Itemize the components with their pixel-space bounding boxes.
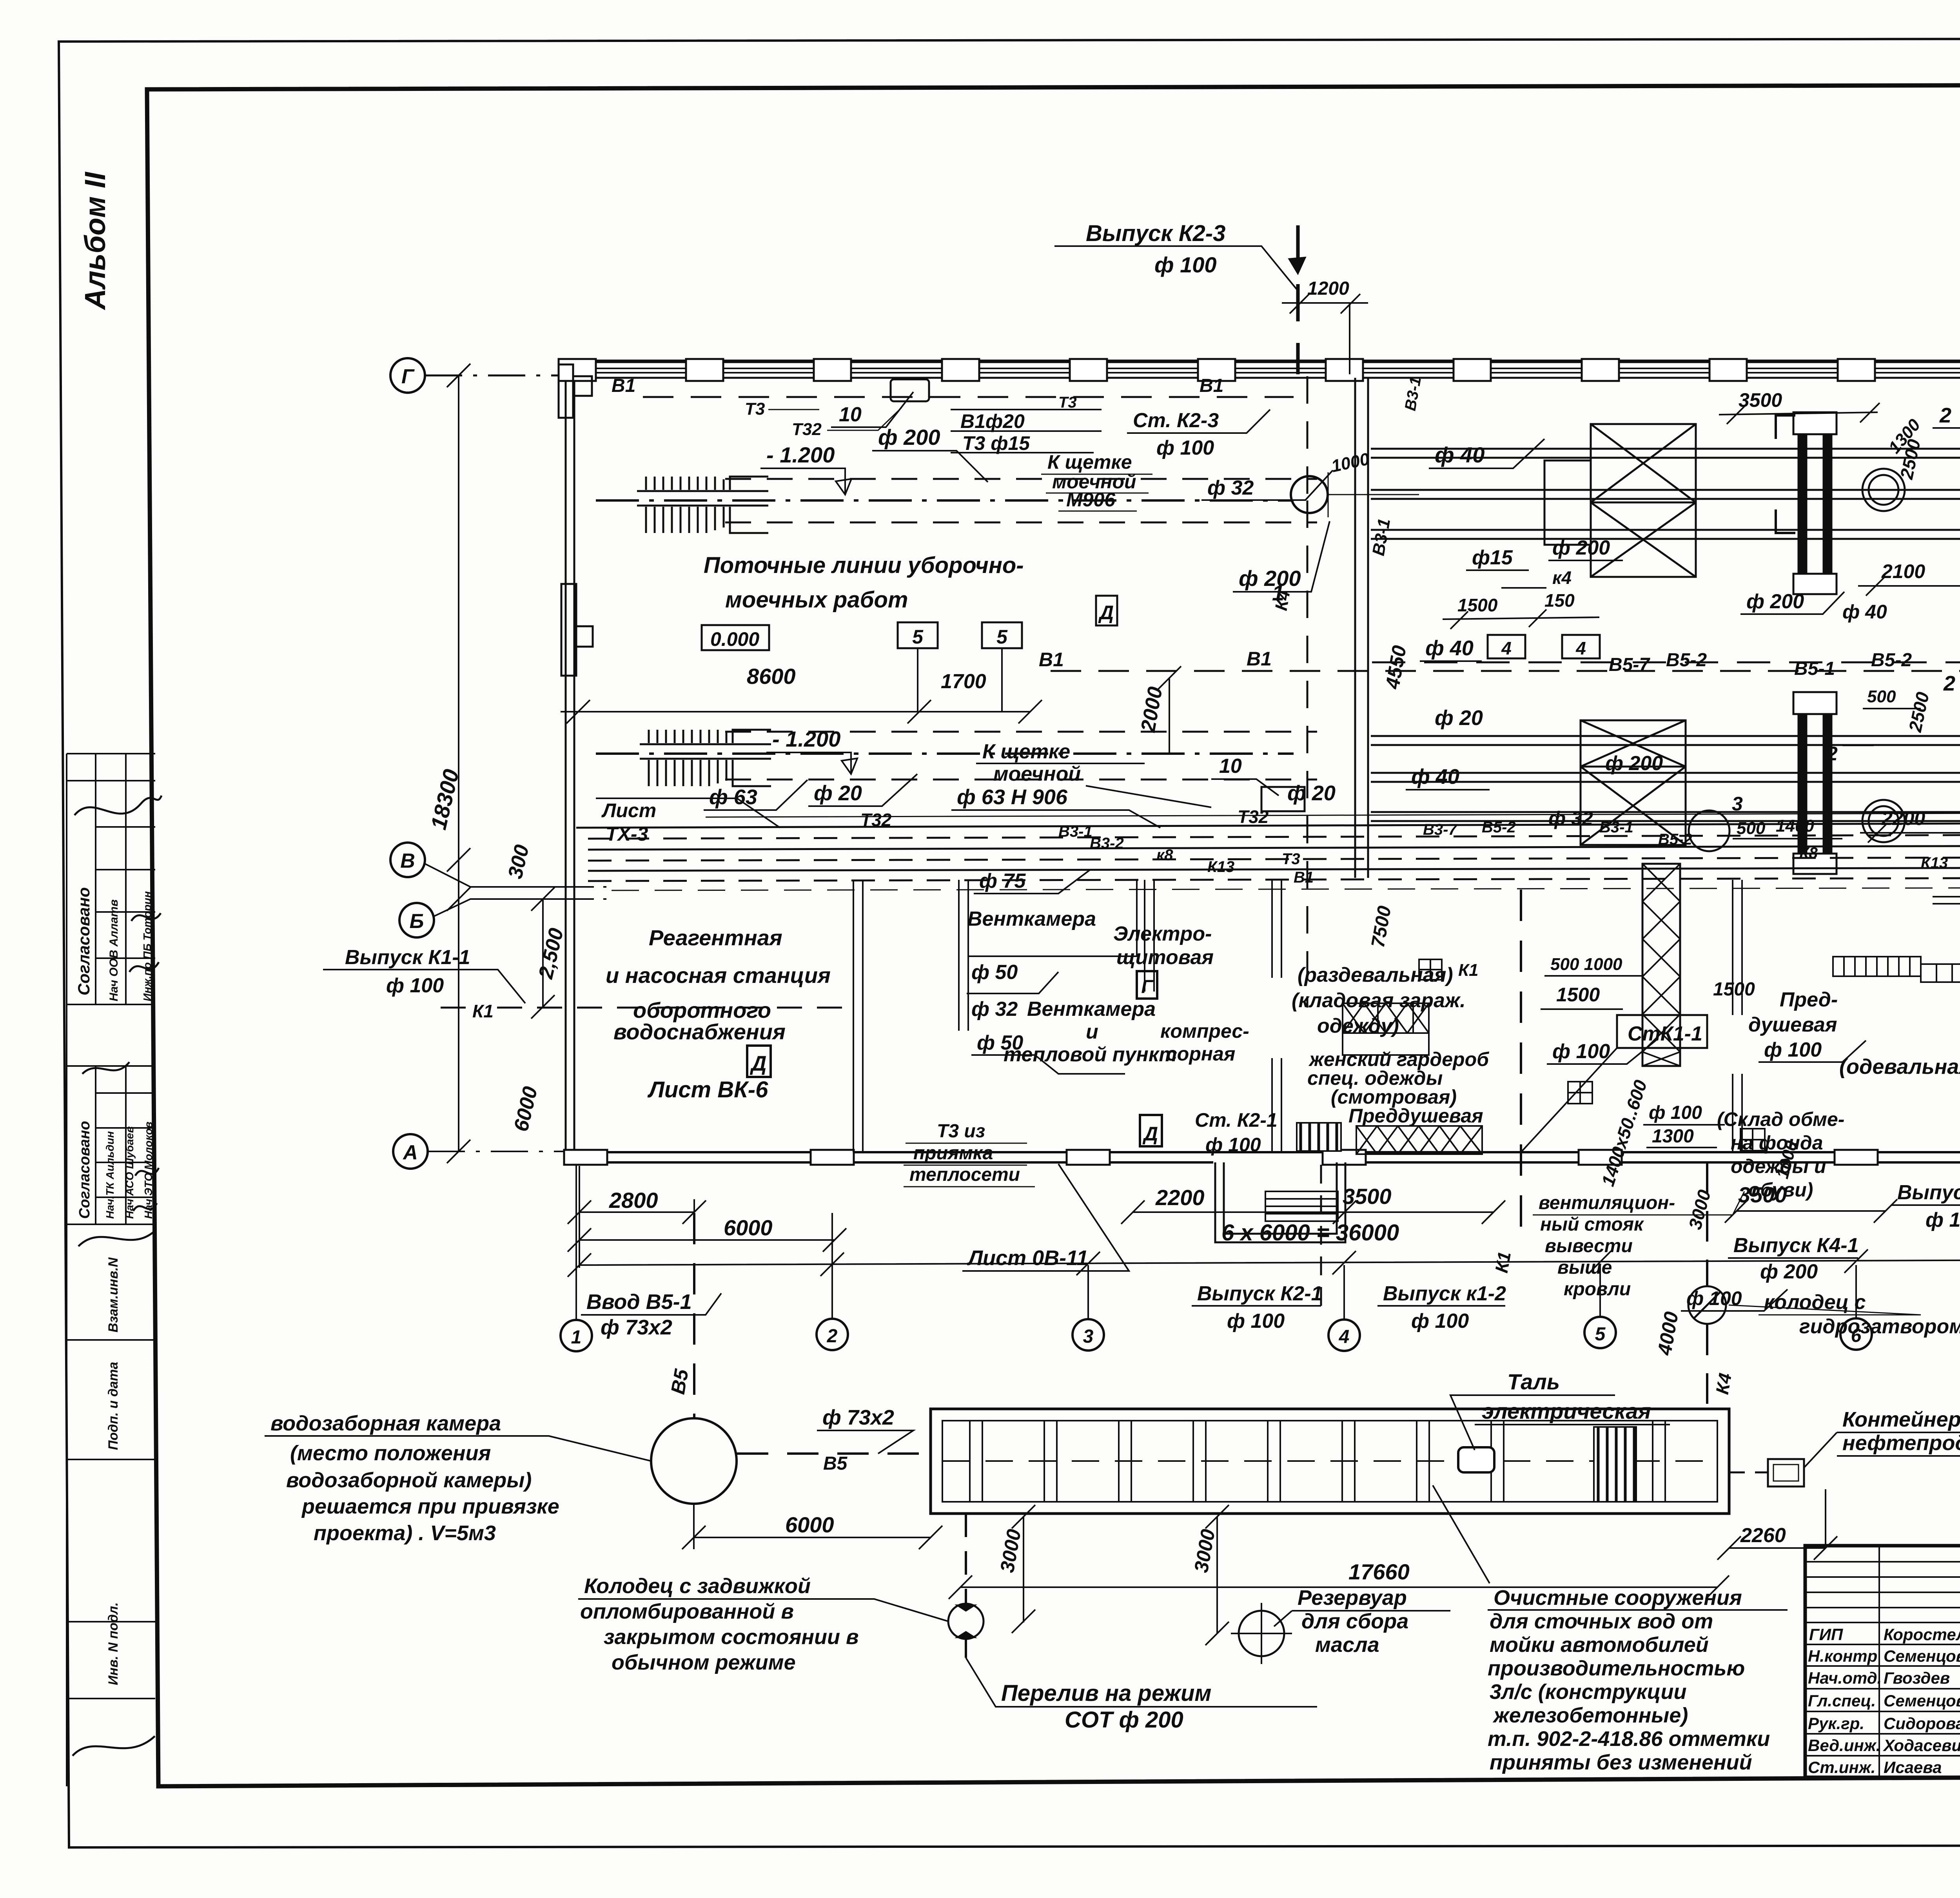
svg-text:одежду): одежду) bbox=[1317, 1015, 1399, 1037]
svg-text:ф 100: ф 100 bbox=[1926, 1209, 1960, 1231]
axis line А bbox=[428, 1151, 568, 1152]
svg-text:К8: К8 bbox=[1799, 845, 1818, 862]
svg-text:В5: В5 bbox=[667, 1367, 693, 1396]
svg-text:Б: Б bbox=[410, 910, 424, 933]
svg-text:ф15: ф15 bbox=[1472, 546, 1513, 569]
axis line В-Б dashdot bbox=[566, 887, 612, 899]
lane 2 centerline bbox=[596, 752, 1294, 755]
колодец с гидрозатвором circle bbox=[1688, 1286, 1726, 1324]
top-left corner pilaster bbox=[559, 364, 592, 418]
svg-text:Г: Г bbox=[1141, 977, 1154, 997]
svg-text:М906: М906 bbox=[1066, 489, 1116, 511]
grid circle 4 bbox=[1328, 1320, 1360, 1351]
В5 riser dashed to intake bbox=[693, 1213, 695, 1418]
svg-text:В1: В1 bbox=[1294, 869, 1314, 886]
svg-text:ф 100: ф 100 bbox=[1552, 1040, 1610, 1063]
svg-text:ТХ-3: ТХ-3 bbox=[606, 823, 648, 845]
svg-text:1500: 1500 bbox=[1457, 595, 1498, 615]
svg-text:Семенцова: Семенцова bbox=[1884, 1691, 1960, 1710]
svg-text:Т3: Т3 bbox=[1282, 850, 1300, 868]
svg-text:ф 100: ф 100 bbox=[1154, 252, 1217, 277]
svg-text:В3-1: В3-1 bbox=[1369, 517, 1394, 557]
svg-text:(Склад обме-: (Склад обме- bbox=[1717, 1108, 1844, 1130]
svg-text:т.п. 902-2-418.86 отметки: т.п. 902-2-418.86 отметки bbox=[1488, 1727, 1770, 1751]
svg-text:Семенцова: Семенцова bbox=[1884, 1647, 1960, 1665]
svg-text:щитовая: щитовая bbox=[1116, 946, 1214, 969]
svg-text:водозаборной камеры): водозаборной камеры) bbox=[286, 1468, 532, 1492]
svg-text:ф 100: ф 100 bbox=[1227, 1310, 1285, 1332]
section flags lane1 bbox=[1776, 415, 1795, 533]
svg-text:ф 200: ф 200 bbox=[1746, 590, 1804, 613]
svg-text:Инв. N подл.: Инв. N подл. bbox=[106, 1602, 121, 1685]
svg-text:4: 4 bbox=[1575, 638, 1586, 658]
svg-text:1500: 1500 bbox=[1713, 979, 1755, 1000]
svg-text:1200: 1200 bbox=[1307, 278, 1349, 299]
svg-text:Рук.гр.: Рук.гр. bbox=[1808, 1714, 1864, 1733]
svg-text:Венткамера: Венткамера bbox=[967, 908, 1096, 930]
svg-text:ф 63 Н 906: ф 63 Н 906 bbox=[957, 785, 1068, 809]
manhole circle lane2 bbox=[1689, 810, 1730, 851]
В5 dashed to structure bbox=[737, 1452, 931, 1455]
corridor pipe К13 dashed bbox=[588, 857, 1960, 861]
svg-text:ф 200: ф 200 bbox=[1552, 537, 1610, 559]
svg-text:В5: В5 bbox=[823, 1453, 848, 1474]
grid circle 6 bbox=[1840, 1318, 1872, 1350]
svg-text:2200: 2200 bbox=[1881, 807, 1925, 829]
svg-text:нефтепродуктов: нефтепродуктов bbox=[1842, 1431, 1960, 1455]
svg-text:1400: 1400 bbox=[1776, 816, 1814, 836]
svg-text:Выпуск К2-3: Выпуск К2-3 bbox=[1086, 221, 1225, 246]
svg-text:В5-2: В5-2 bbox=[1658, 831, 1692, 848]
svg-text:сорная: сорная bbox=[1166, 1043, 1235, 1065]
extension verticals left dims bbox=[579, 1166, 694, 1268]
outlet К2-3 dashed riser bbox=[1296, 225, 1300, 374]
svg-text:колодец с: колодец с bbox=[1764, 1291, 1866, 1314]
svg-text:10: 10 bbox=[1219, 755, 1242, 778]
колодец с задвижкой circle bbox=[948, 1604, 984, 1639]
walls вокруг женского гардероба bbox=[1272, 1058, 1281, 1152]
svg-text:и насосная станция: и насосная станция bbox=[606, 963, 831, 988]
svg-text:душевая: душевая bbox=[1748, 1013, 1837, 1036]
svg-text:В3-1: В3-1 bbox=[1058, 823, 1093, 840]
svg-text:моечной: моечной bbox=[993, 763, 1081, 785]
svg-text:Согласовано: Согласовано bbox=[76, 1121, 93, 1219]
svg-text:Преддушевая: Преддушевая bbox=[1348, 1105, 1483, 1127]
svg-text:Гл.спец.: Гл.спец. bbox=[1808, 1691, 1876, 1710]
svg-text:ф 20: ф 20 bbox=[814, 781, 862, 805]
svg-text:Пред-: Пред- bbox=[1780, 988, 1838, 1011]
label К1 squares bbox=[1419, 959, 1442, 980]
svg-text:ГИП: ГИП bbox=[1809, 1625, 1843, 1644]
svg-text:ф 200: ф 200 bbox=[1239, 566, 1301, 591]
svg-text:- 1.200: - 1.200 bbox=[772, 727, 840, 751]
svg-text:компрес-: компрес- bbox=[1160, 1020, 1249, 1042]
svg-text:3500: 3500 bbox=[1738, 1182, 1787, 1207]
svg-text:Ст. К2-3: Ст. К2-3 bbox=[1133, 409, 1219, 432]
square fixture К1 bbox=[1568, 1082, 1592, 1104]
svg-text:на фонда: на фонда bbox=[1731, 1132, 1823, 1154]
structure inner rect bbox=[942, 1421, 1717, 1502]
svg-text:ф 50: ф 50 bbox=[971, 961, 1018, 984]
svg-text:500: 500 bbox=[1867, 687, 1896, 706]
svg-text:5: 5 bbox=[912, 626, 924, 648]
strip signature squiggles bbox=[73, 796, 162, 1756]
К4 dashed outlet down bbox=[1706, 1162, 1708, 1409]
left signature strip grid bbox=[67, 754, 155, 1786]
axis circle В bbox=[390, 843, 425, 877]
svg-text:Д: Д bbox=[750, 1052, 767, 1075]
lane 1 pipes dashed bbox=[725, 478, 1317, 480]
svg-text:для сбора: для сбора bbox=[1301, 1610, 1408, 1633]
svg-text:Т3 из: Т3 из bbox=[937, 1121, 985, 1142]
svg-text:железобетонные): железобетонные) bbox=[1492, 1704, 1688, 1727]
svg-text:Нач ООВ Аллатв: Нач ООВ Аллатв bbox=[107, 899, 120, 1001]
wall left of раздевальная bbox=[1272, 880, 1281, 978]
svg-text:3: 3 bbox=[1083, 1326, 1094, 1347]
axis leader В bbox=[425, 864, 566, 887]
svg-text:Т32: Т32 bbox=[1238, 807, 1269, 827]
svg-text:производительностью: производительностью bbox=[1488, 1657, 1745, 1680]
svg-text:обычном режиме: обычном режиме bbox=[612, 1651, 796, 1674]
svg-text:Г: Г bbox=[401, 365, 415, 388]
pipe В1 dashed mid bbox=[1051, 670, 1960, 672]
left vertical dimension line 18300 bbox=[458, 375, 459, 1151]
svg-text:Исаева: Исаева bbox=[1884, 1758, 1942, 1777]
svg-text:проекта) . V=5м3: проекта) . V=5м3 bbox=[314, 1521, 496, 1545]
dim line 2500 bbox=[531, 887, 555, 1019]
svg-text:В5-1: В5-1 bbox=[1794, 658, 1835, 679]
svg-text:одежды и: одежды и bbox=[1731, 1155, 1826, 1177]
pipe B1 dashed upper band bbox=[643, 396, 1294, 398]
svg-text:опломбированной в: опломбированной в bbox=[580, 1600, 794, 1623]
svg-text:В5-2: В5-2 bbox=[1666, 650, 1707, 671]
title block signature grid bbox=[1805, 1546, 1960, 1777]
lattice shaft band bbox=[1642, 864, 1680, 1066]
svg-text:Очистные сооружения: Очистные сооружения bbox=[1494, 1586, 1742, 1610]
svg-text:5: 5 bbox=[996, 626, 1008, 648]
svg-text:ф 20: ф 20 bbox=[1435, 706, 1483, 730]
svg-text:Реагентная: Реагентная bbox=[649, 925, 782, 950]
svg-text:4550: 4550 bbox=[1381, 644, 1411, 691]
svg-text:0.000: 0.000 bbox=[710, 628, 759, 650]
svg-text:ф 100: ф 100 bbox=[386, 974, 444, 997]
left exterior wall bbox=[566, 381, 574, 1152]
svg-text:ф 100: ф 100 bbox=[1205, 1134, 1261, 1156]
svg-text:К щетке: К щетке bbox=[982, 740, 1070, 763]
axis leader Б bbox=[434, 899, 566, 916]
svg-text:СОТ ф 200: СОТ ф 200 bbox=[1065, 1707, 1183, 1733]
Контейнер box bbox=[1768, 1459, 1804, 1486]
svg-text:Электро-: Электро- bbox=[1113, 923, 1212, 945]
svg-text:Выпуск к1-2: Выпуск к1-2 bbox=[1383, 1282, 1506, 1305]
wash unit 1 portal bbox=[1793, 412, 1837, 594]
svg-text:Поточные линии уборочно-: Поточные линии уборочно- bbox=[704, 553, 1024, 578]
svg-text:17660: 17660 bbox=[1348, 1559, 1410, 1584]
svg-text:В1: В1 bbox=[612, 375, 635, 396]
structure center dashline bbox=[942, 1460, 1717, 1462]
svg-text:3500: 3500 bbox=[1343, 1184, 1392, 1209]
svg-text:А: А bbox=[402, 1141, 418, 1164]
svg-text:ф 200: ф 200 bbox=[1605, 752, 1663, 775]
svg-text:для сточных вод от: для сточных вод от bbox=[1490, 1610, 1713, 1633]
В5 dashed line between lanes bbox=[1372, 662, 1960, 663]
svg-text:Т3 ф15: Т3 ф15 bbox=[962, 432, 1030, 454]
svg-text:1: 1 bbox=[571, 1327, 582, 1348]
wash unit 2 X-box bbox=[1581, 720, 1686, 845]
wash unit 2 brush circles bbox=[1862, 669, 1960, 849]
svg-text:2800: 2800 bbox=[609, 1188, 658, 1213]
svg-text:ф 100: ф 100 bbox=[1156, 437, 1214, 459]
svg-text:2: 2 bbox=[1826, 743, 1838, 765]
svg-text:6000: 6000 bbox=[510, 1084, 542, 1134]
corridor pipe В3 dashed bbox=[588, 834, 1960, 839]
wall венткамера left bbox=[959, 880, 968, 1031]
leader to очистные text bbox=[1433, 1485, 1490, 1583]
svg-text:гидрозатвором: гидрозатвором bbox=[1799, 1315, 1960, 1338]
grid circle 3 bbox=[1073, 1319, 1104, 1351]
svg-text:мойки автомобилей: мойки автомобилей bbox=[1490, 1633, 1709, 1657]
axis circle А bbox=[393, 1134, 428, 1169]
tambour stair grate bbox=[1265, 1191, 1338, 1221]
radiator comb одевальная bbox=[1833, 957, 1960, 982]
svg-text:Т3: Т3 bbox=[745, 399, 765, 419]
svg-text:2100: 2100 bbox=[1881, 560, 1925, 582]
title block main frame bbox=[1805, 1546, 1960, 1777]
svg-text:К13: К13 bbox=[1921, 854, 1948, 872]
очистные сооружения structure outer bbox=[931, 1409, 1729, 1514]
svg-text:ф 200: ф 200 bbox=[878, 425, 940, 450]
svg-text:Контейнер для: Контейнер для bbox=[1842, 1408, 1960, 1431]
svg-text:Т32: Т32 bbox=[860, 810, 892, 830]
svg-text:ф 100: ф 100 bbox=[1764, 1039, 1822, 1061]
svg-text:к8: к8 bbox=[1156, 847, 1173, 864]
svg-text:3: 3 bbox=[1732, 793, 1743, 815]
lane 1 centerline bbox=[596, 499, 1294, 502]
svg-text:2: 2 bbox=[1939, 404, 1951, 427]
axis circle Б bbox=[399, 903, 434, 937]
wash unit 2 portal bbox=[1793, 692, 1837, 874]
square fixture right bbox=[1740, 1129, 1765, 1151]
svg-text:ный стояк: ный стояк bbox=[1540, 1214, 1644, 1235]
corridor pipe Т32 solid bbox=[576, 822, 1960, 828]
svg-text:150: 150 bbox=[1544, 590, 1575, 611]
svg-text:ф 100: ф 100 bbox=[1411, 1310, 1469, 1332]
svg-text:1700: 1700 bbox=[941, 670, 986, 693]
svg-text:2260: 2260 bbox=[1740, 1524, 1786, 1547]
brush symbol lane 2 bbox=[640, 730, 771, 786]
svg-text:3л/с (конструкции: 3л/с (конструкции bbox=[1490, 1680, 1687, 1704]
svg-text:Лист ВК-6: Лист ВК-6 bbox=[647, 1077, 768, 1102]
top wall column blocks bbox=[559, 359, 1960, 381]
svg-text:6000: 6000 bbox=[724, 1215, 773, 1240]
svg-text:(место положения: (место положения bbox=[290, 1441, 491, 1465]
entrance tambour below axis А bbox=[1215, 1162, 1345, 1242]
svg-text:оборотного: оборотного bbox=[633, 998, 771, 1022]
svg-text:Т32: Т32 bbox=[792, 420, 822, 439]
lane 1 rails right bbox=[1371, 449, 1960, 539]
vert dashed К1 center bbox=[1520, 890, 1522, 1242]
wash unit 1 X-box bbox=[1544, 424, 1696, 577]
svg-text:Вед.инж.: Вед.инж. bbox=[1808, 1736, 1880, 1755]
bottom wall column blocks bbox=[564, 1150, 1960, 1165]
svg-text:Нач.отд.: Нач.отд. bbox=[1808, 1669, 1882, 1687]
svg-text:8600: 8600 bbox=[747, 664, 796, 689]
svg-text:3000: 3000 bbox=[996, 1527, 1025, 1574]
bottom exterior wall on axis А bbox=[564, 1152, 1960, 1162]
manhole circle 1 (lane1) bbox=[1291, 476, 1328, 513]
svg-text:В1: В1 bbox=[1039, 649, 1064, 671]
lane 2 rails right bbox=[1371, 736, 1960, 821]
boxed letter Д компрессорная bbox=[1140, 1115, 1162, 1146]
svg-text:В3-2: В3-2 bbox=[1090, 835, 1124, 852]
wall right wing divider 1 bbox=[1733, 880, 1742, 1015]
svg-text:К1: К1 bbox=[1458, 961, 1479, 980]
svg-text:2: 2 bbox=[1943, 672, 1955, 695]
svg-text:тепловой пункт: тепловой пункт bbox=[1004, 1043, 1177, 1066]
number box 5 (right) bbox=[982, 622, 1022, 648]
венткамера box inner bbox=[968, 880, 1137, 956]
svg-text:ф 32: ф 32 bbox=[1207, 477, 1254, 499]
svg-text:Венткамера: Венткамера bbox=[1027, 998, 1156, 1021]
svg-text:В3-1: В3-1 bbox=[1599, 819, 1633, 836]
svg-text:Д: Д bbox=[1142, 1123, 1158, 1145]
svg-text:4000: 4000 bbox=[1653, 1310, 1683, 1357]
svg-text:К1: К1 bbox=[472, 1001, 494, 1021]
svg-text:Резервуар: Резервуар bbox=[1298, 1586, 1407, 1610]
svg-text:ф 40: ф 40 bbox=[1435, 442, 1485, 467]
svg-text:электрическая: электрическая bbox=[1482, 1399, 1651, 1423]
svg-text:Колодец с задвижкой: Колодец с задвижкой bbox=[584, 1574, 811, 1598]
wall электрощитовая bbox=[1145, 880, 1154, 992]
svg-text:ф 100: ф 100 bbox=[1649, 1102, 1702, 1123]
boxed letter Г bbox=[1137, 971, 1157, 999]
svg-text:К щетке: К щетке bbox=[1047, 451, 1132, 473]
svg-text:ф 200: ф 200 bbox=[1760, 1260, 1818, 1283]
svg-text:3000: 3000 bbox=[1684, 1187, 1715, 1232]
grid circle 2 bbox=[817, 1319, 848, 1350]
svg-text:Гвоздев: Гвоздев bbox=[1884, 1669, 1950, 1687]
svg-text:ф 32: ф 32 bbox=[971, 998, 1018, 1021]
svg-text:В1: В1 bbox=[1247, 648, 1272, 670]
boxed letter Д reagent bbox=[747, 1046, 771, 1077]
svg-text:СтК1-1: СтК1-1 bbox=[1628, 1022, 1702, 1045]
svg-text:300: 300 bbox=[504, 843, 534, 881]
svg-text:теплосети: теплосети bbox=[909, 1164, 1020, 1185]
svg-text:приняты без изменений: приняты без изменений bbox=[1490, 1751, 1752, 1774]
structure internal dividers bbox=[970, 1421, 1665, 1502]
grid stubs to circles bbox=[576, 1162, 1960, 1320]
svg-text:Альбом II: Альбом II bbox=[79, 172, 111, 310]
svg-text:К4: К4 bbox=[1272, 589, 1294, 612]
boxed labels В1ф20 Т3ф15 bbox=[951, 410, 1102, 453]
водозаборная камера circle bbox=[651, 1418, 737, 1504]
svg-text:Ходасевич: Ходасевич bbox=[1883, 1736, 1960, 1755]
svg-text:ф 20: ф 20 bbox=[1287, 781, 1336, 805]
svg-text:5: 5 bbox=[1595, 1324, 1606, 1345]
svg-text:ф 75: ф 75 bbox=[979, 870, 1026, 892]
smesitel double line right bbox=[1933, 897, 1960, 904]
number box 5 (left) bbox=[898, 622, 938, 648]
svg-text:Таль: Таль bbox=[1507, 1369, 1560, 1394]
svg-text:2500: 2500 bbox=[1905, 690, 1933, 734]
svg-text:2: 2 bbox=[827, 1326, 838, 1347]
svg-text:4: 4 bbox=[1501, 638, 1512, 658]
structure hatched grate cell bbox=[1594, 1427, 1636, 1502]
svg-text:Инж.по ПБ Тоторин: Инж.по ПБ Тоторин bbox=[141, 891, 153, 1001]
svg-text:К13: К13 bbox=[1207, 858, 1234, 876]
svg-text:7500: 7500 bbox=[1368, 904, 1396, 949]
wall right wing divider 2 bbox=[1733, 1074, 1742, 1152]
elevation box 0.000 bbox=[702, 625, 769, 650]
corridor pipe Т3 solid bbox=[588, 868, 1960, 871]
svg-text:Д: Д bbox=[1098, 602, 1114, 624]
К-line dashed to valve bbox=[965, 1514, 967, 1658]
svg-text:Н.контр: Н.контр bbox=[1808, 1647, 1877, 1665]
svg-text:Лист: Лист bbox=[601, 799, 656, 821]
brush symbol lane 1 bbox=[637, 477, 768, 533]
svg-text:1000: 1000 bbox=[1330, 449, 1371, 476]
svg-text:6 х 6000 = 36000: 6 х 6000 = 36000 bbox=[1221, 1220, 1399, 1245]
svg-text:Лист 0В-11: Лист 0В-11 bbox=[967, 1246, 1088, 1270]
svg-text:моечных работ: моечных работ bbox=[725, 587, 908, 613]
svg-text:решается при привязке: решается при привязке bbox=[301, 1495, 559, 1518]
svg-text:ф 40: ф 40 bbox=[1425, 636, 1474, 660]
axis circle Г bbox=[390, 358, 425, 393]
svg-text:Подп. и дата: Подп. и дата bbox=[106, 1362, 121, 1450]
svg-text:В1: В1 bbox=[1200, 375, 1223, 396]
svg-text:вентиляцион-: вентиляцион- bbox=[1539, 1193, 1675, 1213]
svg-text:2200: 2200 bbox=[1155, 1185, 1205, 1210]
svg-text:Выпуск К2-1: Выпуск К2-1 bbox=[1197, 1282, 1323, 1305]
central wall between halls bbox=[1355, 378, 1368, 878]
room wall: reagent room right bbox=[853, 880, 863, 1152]
svg-text:6000: 6000 bbox=[785, 1512, 834, 1537]
grid circle 1 bbox=[561, 1320, 592, 1351]
svg-text:к4: к4 bbox=[1552, 567, 1572, 588]
К4 dashed riser along central wall bbox=[1307, 376, 1308, 1008]
svg-text:и: и bbox=[1086, 1021, 1098, 1043]
svg-text:вывести: вывести bbox=[1545, 1236, 1633, 1256]
corridor pipe В7 dashed bbox=[588, 878, 1960, 881]
svg-text:В5-2: В5-2 bbox=[1482, 819, 1516, 836]
lockers row 2 bbox=[1297, 1123, 1482, 1154]
svg-text:Сидорова: Сидорова bbox=[1884, 1714, 1960, 1733]
svg-text:1500: 1500 bbox=[1556, 984, 1600, 1006]
svg-text:ф 63: ф 63 bbox=[709, 785, 757, 809]
lockers row 1 (X boxes) bbox=[1343, 1003, 1429, 1055]
svg-text:500 1000: 500 1000 bbox=[1550, 955, 1622, 974]
svg-text:В5-7: В5-7 bbox=[1609, 654, 1650, 675]
svg-text:Выпуск К1-1: Выпуск К1-1 bbox=[345, 946, 470, 969]
svg-text:3000: 3000 bbox=[1190, 1527, 1219, 1574]
stub from container bbox=[1825, 1489, 1826, 1548]
svg-text:кровли: кровли bbox=[1564, 1279, 1631, 1300]
svg-text:Выпуск К4-1: Выпуск К4-1 bbox=[1733, 1234, 1859, 1257]
pipe К1 dashed bbox=[441, 1007, 855, 1009]
svg-text:Ввод В5-1: Ввод В5-1 bbox=[586, 1290, 692, 1314]
svg-text:ф 73х2: ф 73х2 bbox=[601, 1316, 672, 1339]
svg-text:выше: выше bbox=[1557, 1257, 1612, 1278]
svg-text:Перелив на режим: Перелив на режим bbox=[1001, 1680, 1211, 1706]
svg-text:Нач АСО Шубаев: Нач АСО Шубаев bbox=[123, 1126, 136, 1219]
top exterior wall band bbox=[559, 360, 1960, 363]
lane 2 pipes dashed bbox=[725, 731, 1317, 733]
boxed Ст К1-1 bbox=[1617, 1015, 1707, 1048]
svg-text:В: В bbox=[400, 850, 415, 872]
svg-text:закрытом состоянии в: закрытом состоянии в bbox=[604, 1625, 859, 1649]
svg-text:(одевальная): (одевальная) bbox=[1839, 1055, 1960, 1079]
signature rows text bbox=[1808, 1625, 1960, 1777]
